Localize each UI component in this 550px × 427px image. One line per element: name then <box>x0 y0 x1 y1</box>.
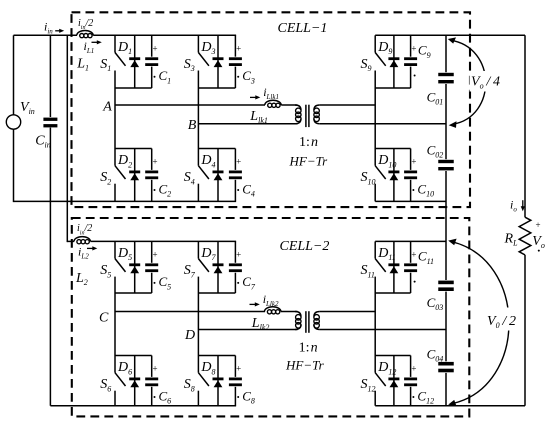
diode D10 <box>388 149 399 202</box>
label D11 <box>377 246 396 262</box>
wire leg S3-S4 through node B <box>197 88 199 149</box>
wire output capacitor rail <box>445 35 447 405</box>
svg-text:1:: 1: <box>299 135 310 150</box>
wire node A to transformer <box>281 104 297 106</box>
svg-text:n: n <box>311 341 318 356</box>
label Cin <box>35 134 51 150</box>
label C12 <box>411 364 434 406</box>
switch S11 <box>361 241 386 293</box>
label D7 <box>200 246 216 262</box>
wire S9-group bottom <box>375 87 410 89</box>
wire transformer-2 secondary top <box>320 311 375 313</box>
wire S5-group bottom <box>115 292 152 294</box>
wire top rail cell-2 primary <box>90 240 236 242</box>
cell-2 dashed enclosure box <box>72 218 470 416</box>
wire cell-2 primary bottom rail <box>50 405 236 407</box>
label 1:n cell-1 <box>299 135 318 150</box>
svg-text:+: + <box>152 250 157 260</box>
label D1 <box>117 40 132 56</box>
svg-text:+: + <box>411 44 416 54</box>
svg-text:D: D <box>184 328 195 343</box>
capacitor C12 <box>403 356 418 406</box>
svg-text:n: n <box>311 135 318 150</box>
label D12 <box>377 360 396 376</box>
label C8 <box>236 364 255 406</box>
capacitor C9 <box>403 35 418 88</box>
wire output bottom <box>375 405 525 407</box>
svg-text:C: C <box>99 311 109 326</box>
label C9 <box>411 43 430 77</box>
wire S6-group top <box>115 355 152 357</box>
wire left input rail lower <box>13 129 15 202</box>
capacitor C10 <box>403 149 418 202</box>
wire leg S5-S6 through node C <box>114 293 116 356</box>
label i_in/2 cell-2 <box>77 223 92 236</box>
svg-text:+: + <box>236 44 241 54</box>
switch S9 <box>361 35 386 88</box>
label i_in <box>44 19 53 35</box>
diode D8 <box>213 356 224 406</box>
switch S1 <box>100 35 125 88</box>
switch S4 <box>184 149 209 202</box>
capacitor Cin lead upper <box>49 35 51 118</box>
diode D7 <box>213 241 224 293</box>
wire S8-group top <box>198 355 235 357</box>
label i_Llk2 <box>263 292 279 308</box>
wire leg S7-S8 through node D <box>197 293 199 356</box>
label Vo/4 <box>470 71 501 92</box>
transformer HF-Tr cell-1 <box>295 105 320 127</box>
source Vin circle <box>6 115 20 129</box>
svg-text:1:: 1: <box>299 341 310 356</box>
switch S6 <box>100 356 125 406</box>
switch S12 <box>361 356 386 406</box>
capacitor C7 <box>228 241 243 293</box>
svg-text:A: A <box>102 100 112 115</box>
resistor RL <box>519 217 531 255</box>
label C6 <box>152 364 171 406</box>
arrow i_L2 <box>87 246 97 250</box>
label C11 <box>411 249 434 283</box>
wire S4-group top <box>198 148 235 150</box>
label C4 <box>236 157 255 199</box>
label i_in/2 cell-1 <box>78 18 93 31</box>
svg-text:B: B <box>188 118 197 133</box>
label D6 <box>117 360 132 376</box>
capacitor C02 <box>437 159 455 171</box>
wire node C <box>115 311 265 313</box>
node D label <box>184 328 195 343</box>
svg-text:CELL−2: CELL−2 <box>280 239 330 254</box>
arrow i_L1 <box>92 40 102 44</box>
label Vo output <box>532 220 545 252</box>
capacitor Cin plates <box>42 117 58 128</box>
arrow i_in <box>55 29 64 33</box>
svg-text:+: + <box>152 157 157 167</box>
label Vo/2 <box>485 308 518 331</box>
svg-text:+: + <box>152 44 157 54</box>
arrow i_o <box>521 200 525 211</box>
diode D12 <box>388 356 399 406</box>
diode D4 <box>213 149 224 202</box>
label L1 <box>76 57 89 73</box>
label Llk1 <box>249 109 268 125</box>
wire top input rail <box>14 34 78 36</box>
wire S2-group top <box>115 148 152 150</box>
label CELL-2 <box>280 239 330 254</box>
label C02 <box>427 143 444 160</box>
switch S2 <box>100 149 125 202</box>
capacitor C04 <box>437 361 455 373</box>
wire node C to transformer <box>281 311 298 313</box>
switch S10 <box>361 149 386 202</box>
capacitor C1 <box>144 35 159 88</box>
label Vin <box>20 100 35 116</box>
node A label <box>102 100 112 115</box>
label RL <box>504 232 519 248</box>
wire leg S9-S10 <box>374 88 376 149</box>
svg-text:V0 / 2: V0 / 2 <box>487 314 516 330</box>
wire leg S1-S2 through node A <box>114 88 116 149</box>
capacitor C03 <box>437 280 455 292</box>
svg-text:+: + <box>152 364 157 374</box>
diode D3 <box>213 35 224 88</box>
diode D9 <box>388 35 399 88</box>
svg-text:+: + <box>411 157 416 167</box>
label D8 <box>200 360 215 376</box>
label D2 <box>117 153 132 169</box>
svg-text:+: + <box>236 157 241 167</box>
label D4 <box>200 153 215 169</box>
wire node D <box>198 329 297 331</box>
label i_L1 <box>84 39 95 55</box>
inductor Llk2 <box>265 307 281 314</box>
label D9 <box>377 40 392 56</box>
capacitor C8 <box>228 356 243 406</box>
label CELL-1 <box>278 21 328 36</box>
switch S8 <box>184 356 209 406</box>
wire S12-group top <box>375 355 410 357</box>
diode D2 <box>129 149 140 202</box>
wire S7-group bottom <box>198 292 235 294</box>
cell-1 dashed enclosure box <box>72 12 471 207</box>
wire input drop to cell-2 <box>66 35 68 242</box>
wire input bottom rail / cell-1 primary bottom rail <box>14 200 237 202</box>
wire top rail secondary cell-1 <box>375 34 525 36</box>
svg-text:HF−Tr: HF−Tr <box>285 357 325 372</box>
diode D11 <box>388 241 399 293</box>
label C1 <box>152 44 171 86</box>
capacitor C5 <box>144 241 159 293</box>
wire transformer-1 secondary top <box>320 104 375 106</box>
wire leg S11-S12 <box>374 293 376 356</box>
inductor Llk1 <box>265 100 281 107</box>
arrow arc Vo/2 across C03+C04 <box>448 239 509 407</box>
svg-text:+: + <box>236 364 241 374</box>
arrow arc Vo/4 across C01 <box>448 37 486 128</box>
label HF-Tr cell-1 <box>289 153 329 168</box>
svg-text:+: + <box>411 250 416 260</box>
label D10 <box>377 153 396 169</box>
wire right rail upper <box>524 35 526 217</box>
inductor L2 <box>74 237 90 244</box>
label C03 <box>427 295 444 312</box>
wire node A <box>115 104 265 106</box>
label Llk2 <box>251 316 270 332</box>
svg-text:CELL−1: CELL−1 <box>278 21 328 36</box>
label C7 <box>236 250 256 292</box>
wire transformer-2 secondary bottom <box>320 329 446 331</box>
label L2 <box>75 271 88 287</box>
wire left input rail upper <box>13 35 15 115</box>
capacitor C11 <box>403 241 418 293</box>
wire cell-2 top rail <box>67 240 74 242</box>
label C2 <box>152 157 171 199</box>
label i_L2 <box>78 244 89 260</box>
wire top rail cell-1 primary <box>93 34 236 36</box>
diode D1 <box>129 35 140 88</box>
svg-text:+: + <box>535 220 540 230</box>
node C label <box>99 311 109 326</box>
label D3 <box>200 40 215 56</box>
capacitor C2 <box>144 149 159 202</box>
capacitor C6 <box>144 356 159 406</box>
diode D5 <box>129 241 140 293</box>
capacitor C3 <box>228 35 243 88</box>
switch S3 <box>184 35 209 88</box>
svg-text:HF−Tr: HF−Tr <box>289 153 329 168</box>
capacitor Cin lead lower <box>49 128 51 406</box>
label i_o <box>510 198 517 214</box>
capacitor C4 <box>228 149 243 202</box>
wire node B <box>198 123 297 125</box>
label HF-Tr cell-2 <box>285 357 325 372</box>
label D5 <box>117 246 132 262</box>
switch S5 <box>100 241 125 293</box>
wire S10-group top <box>375 148 410 150</box>
label 1:n cell-2 <box>299 341 318 356</box>
wire cell-2 secondary top rail <box>375 240 446 242</box>
wire S1-group bottom <box>115 87 152 89</box>
label C04 <box>427 347 444 364</box>
svg-text:+: + <box>411 364 416 374</box>
label C10 <box>411 157 434 199</box>
wire S11-group bottom <box>375 292 410 294</box>
wire S3-group bottom <box>198 87 235 89</box>
wire transformer-1 secondary bottom <box>320 123 446 125</box>
capacitor C01 <box>437 72 455 84</box>
node B label <box>188 118 197 133</box>
diode D6 <box>129 356 140 406</box>
label C3 <box>236 44 255 86</box>
arrow i_Llk2 <box>250 302 260 306</box>
transformer HF-Tr cell-2 <box>295 311 320 333</box>
arrow i_Llk1 <box>250 95 260 99</box>
svg-text:Vo / 4: Vo / 4 <box>471 74 500 90</box>
wire S10-group bottom to output rail <box>375 200 446 202</box>
label i_Llk1 <box>263 85 279 101</box>
svg-text:+: + <box>236 250 241 260</box>
switch S7 <box>184 241 209 293</box>
label C01 <box>427 90 444 107</box>
wire right rail lower <box>524 255 526 406</box>
inductor L1 <box>77 31 93 38</box>
label C5 <box>152 250 171 292</box>
